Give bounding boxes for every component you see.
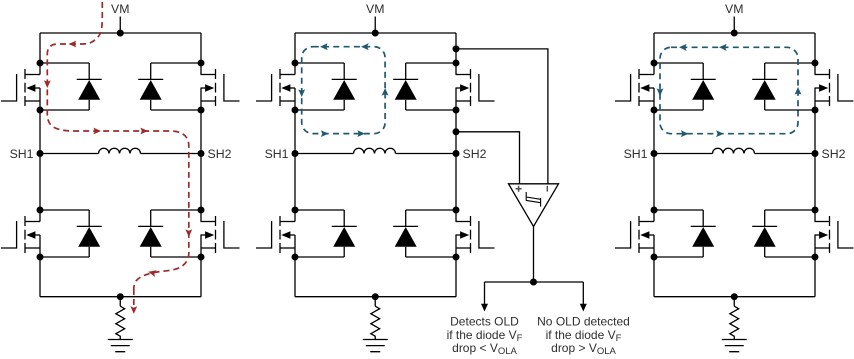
wire plus input xyxy=(456,132,520,184)
wire red path tail xyxy=(133,289,135,308)
arrow blue2 left down xyxy=(298,89,305,97)
node comparator minus tap xyxy=(453,45,460,52)
wire comparator output xyxy=(533,227,535,283)
wire output split xyxy=(485,281,584,283)
op-amp comparator U1 xyxy=(509,184,559,227)
wire blue loop 3 xyxy=(660,47,798,133)
wire red path xyxy=(47,2,189,289)
arrow red top-left xyxy=(69,41,77,48)
svg-text:Detects OLD: Detects OLD xyxy=(450,315,519,329)
arrow red down left rail xyxy=(44,80,51,88)
hysteresis symbol xyxy=(526,192,540,207)
arrow blue2 top 1 xyxy=(320,43,328,50)
arrow right result xyxy=(580,304,587,312)
wire minus input xyxy=(456,49,548,184)
arrow red right 1 xyxy=(93,128,101,135)
svg-text:No OLD detected: No OLD detected xyxy=(537,315,630,329)
arrow red right 2 xyxy=(140,128,148,135)
node comparator plus tap xyxy=(453,128,460,135)
arrow blue3 bottom 1 xyxy=(681,130,689,137)
pin label plus xyxy=(516,186,522,192)
arrow blue3 left down xyxy=(657,88,664,96)
svg-text:drop < VOLA: drop < VOLA xyxy=(452,341,517,357)
wire left result branch xyxy=(484,282,486,305)
arrow red down SH2 rail xyxy=(185,229,192,237)
arrow blue2 right up xyxy=(382,88,389,96)
arrow blue2 bottom 1 xyxy=(321,130,329,137)
arrow red left bottom xyxy=(148,268,157,276)
arrow blue2 bottom 2 xyxy=(357,130,365,137)
arrow blue3 right up xyxy=(795,87,802,95)
wire right result branch xyxy=(582,282,584,305)
arrow blue3 bottom 2 xyxy=(716,130,724,137)
arrow blue3 top 2 xyxy=(719,44,727,51)
arrow red into ground xyxy=(130,306,137,314)
arrow blue2 top 2 xyxy=(361,43,369,50)
arrow blue3 top 1 xyxy=(679,44,687,51)
wire blue loop 2 xyxy=(302,47,385,134)
pin label minus xyxy=(546,186,548,192)
node output junction xyxy=(530,279,537,286)
arrow left result xyxy=(481,304,488,312)
svg-text:drop > VOLA: drop > VOLA xyxy=(551,341,616,357)
